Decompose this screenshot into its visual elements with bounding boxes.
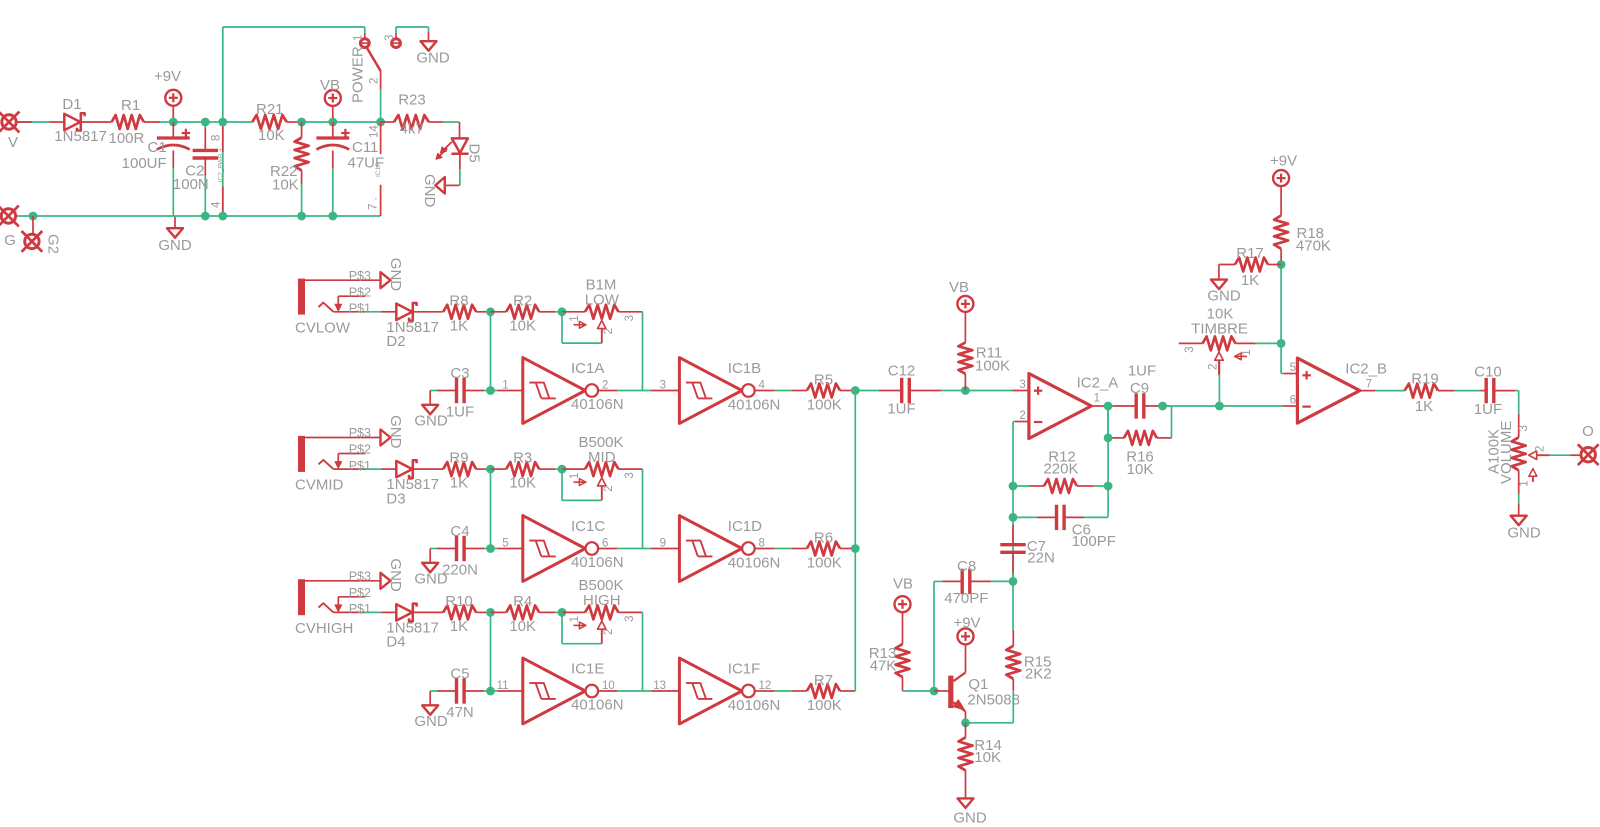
svg-text:3: 3: [1019, 379, 1025, 391]
svg-text:GND: GND: [414, 412, 448, 429]
svg-text:R23: R23: [398, 92, 426, 109]
svg-text:1: 1: [1094, 393, 1100, 405]
svg-text:IC1C: IC1C: [571, 518, 605, 535]
svg-text:10K: 10K: [974, 749, 1001, 766]
svg-text:100PF: 100PF: [1072, 533, 1116, 550]
svg-text:D5: D5: [466, 144, 483, 163]
node IC1 hidden power pins (14/7): [368, 122, 383, 216]
resistor R19 1K: [1405, 371, 1481, 415]
resistor R21 10K: [223, 101, 302, 144]
svg-text:11: 11: [497, 680, 509, 692]
ground GND below C5: [414, 691, 448, 730]
junction C11 bottom: [328, 212, 337, 221]
wire V to D1: [16, 121, 49, 123]
ground GND below VOLUME: [1507, 516, 1541, 542]
svg-text:C8: C8: [957, 558, 976, 575]
ground GND below D5: [421, 174, 445, 208]
svg-text:2: 2: [1535, 446, 1547, 452]
svg-text:R17: R17: [1236, 245, 1264, 262]
svg-text:GND: GND: [158, 237, 192, 254]
svg-text:R2: R2: [513, 292, 532, 309]
ground GND below C4: [414, 549, 448, 588]
ground GND at jack CVMID sleeve: [381, 415, 404, 449]
wire jack to D2: [365, 311, 381, 313]
svg-text:C9: C9: [1130, 380, 1149, 397]
svg-text:D3: D3: [386, 490, 405, 507]
schmitt inverter IC1A 40106N: [491, 358, 624, 424]
svg-text:1UF: 1UF: [887, 401, 915, 418]
svg-text:9: 9: [660, 538, 666, 550]
svg-text:C3: C3: [450, 365, 469, 382]
svg-text:C12: C12: [888, 363, 916, 380]
svg-text:P$3: P$3: [349, 569, 371, 583]
svg-text:C10: C10: [1474, 363, 1502, 380]
svg-text:8: 8: [211, 135, 223, 141]
svg-text:IC1P: IC1P: [375, 163, 382, 177]
wire main node to IC2_B pin6: [1163, 395, 1298, 407]
svg-text:IC1E: IC1E: [571, 661, 604, 678]
resistor R3 10K: [491, 450, 563, 492]
svg-text:1K: 1K: [450, 475, 468, 492]
svg-text:+9V: +9V: [154, 68, 181, 85]
svg-text:GND: GND: [387, 558, 404, 592]
resistor R7 100K: [755, 672, 855, 714]
wire R17/R18 node down: [1280, 265, 1282, 344]
svg-text:100K: 100K: [975, 358, 1010, 375]
junction C2 top: [201, 118, 210, 127]
svg-text:3: 3: [624, 615, 636, 621]
svg-text:1: 1: [502, 380, 508, 392]
svg-text:P$3: P$3: [349, 269, 371, 283]
svg-text:HIGH: HIGH: [583, 592, 621, 609]
svg-text:1UF: 1UF: [446, 404, 474, 421]
ground GND below C3: [414, 391, 448, 430]
junction R10/R4 node: [486, 608, 495, 617]
svg-text:40106N: 40106N: [728, 397, 781, 414]
svg-text:R7: R7: [814, 672, 833, 689]
svg-text:P$2: P$2: [349, 285, 371, 299]
svg-text:POWER: POWER: [350, 46, 367, 103]
wire node to IC2_B pin5: [1281, 343, 1297, 374]
ground GND below R14: [953, 798, 987, 826]
svg-text:P$2: P$2: [349, 443, 371, 457]
switch POWER pin 3 to GND: [384, 27, 429, 47]
svg-text:7 .: 7 .: [368, 197, 380, 210]
junction R8/R2 node: [486, 307, 495, 316]
capacitor C11 47UF: [316, 122, 384, 216]
svg-text:100K: 100K: [807, 554, 842, 571]
wire R13 to Q1 base: [903, 690, 935, 692]
svg-text:VOLUME: VOLUME: [1498, 421, 1515, 484]
wire R21 to VB node: [302, 121, 333, 123]
svg-text:10K: 10K: [509, 317, 536, 334]
svg-text:40106N: 40106N: [571, 396, 624, 413]
wire IC1C out to IC1D in: [598, 548, 651, 550]
capacitor C4 220N: [430, 523, 490, 579]
svg-text:P$1: P$1: [349, 302, 371, 316]
svg-text:10K: 10K: [258, 127, 285, 144]
svg-text:IC2_B: IC2_B: [1345, 361, 1387, 378]
svg-text:VB: VB: [949, 279, 969, 296]
svg-text:1N5817: 1N5817: [54, 128, 107, 145]
wire VOLUME to GND: [1518, 470, 1520, 515]
svg-text:P$1: P$1: [349, 602, 371, 616]
svg-text:3: 3: [660, 380, 666, 392]
schmitt inverter IC1E 40106N: [491, 658, 624, 724]
junction R16 left: [1104, 434, 1113, 443]
svg-text:1K: 1K: [450, 618, 468, 635]
svg-text:IC1B: IC1B: [728, 360, 761, 377]
resistor R10 1K: [443, 593, 490, 635]
junction POWER pin2 / R23 node: [376, 118, 385, 127]
pad O (output): [1578, 423, 1599, 465]
svg-text:2: 2: [603, 629, 615, 635]
wire IC2_A pin2: [1013, 410, 1029, 422]
svg-text:C11: C11: [352, 139, 378, 156]
svg-text:VB: VB: [320, 77, 340, 94]
schmitt inverter IC1F 40106N: [651, 658, 780, 724]
wire R23 to D5: [429, 122, 460, 138]
svg-text:10K: 10K: [509, 475, 536, 492]
svg-text:1: 1: [569, 473, 581, 479]
svg-text:10K: 10K: [272, 177, 299, 194]
svg-text:2: 2: [369, 78, 381, 84]
junction VB node: [328, 118, 337, 127]
junction C2 bottom: [201, 212, 210, 221]
junction IC2 power bottom: [218, 212, 227, 221]
svg-text:GND: GND: [414, 713, 448, 730]
svg-text:D1: D1: [62, 96, 81, 113]
junction TIMBRE pin1 / R17 node: [1277, 339, 1286, 348]
svg-text:Q1: Q1: [968, 676, 988, 693]
capacitor C7 22N: [1000, 525, 1055, 582]
svg-text:G2: G2: [45, 234, 62, 254]
resistor R17 1K: [1219, 245, 1281, 289]
resistor R23 4k7: [381, 92, 429, 138]
svg-text:2K2: 2K2: [1025, 666, 1052, 683]
resistor R14 10K: [959, 723, 1002, 799]
svg-text:1: 1: [1241, 349, 1253, 355]
junction R12 right: [1104, 482, 1113, 491]
ground GND at jack CVLOW sleeve: [381, 258, 404, 292]
svg-text:P$3: P$3: [349, 426, 371, 440]
junction R17/R18: [1277, 260, 1286, 269]
svg-text:1: 1: [353, 35, 365, 41]
resistor R12 220K: [1013, 448, 1108, 493]
wire node down to C4: [490, 469, 492, 548]
capacitor C8 470PF: [934, 558, 1013, 607]
svg-text:1: 1: [569, 315, 581, 321]
wire IC1E out to IC1F in: [598, 690, 651, 692]
junction TIMBRE wiper node: [1215, 402, 1224, 411]
junction R11 bottom: [961, 386, 970, 395]
potentiometer B1M LOW: [562, 277, 643, 344]
svg-text:P$1: P$1: [349, 459, 371, 473]
wire VB node to power pin 14: [333, 121, 381, 123]
svg-text:R9: R9: [449, 450, 468, 467]
diode D4 1N5817: [381, 604, 443, 651]
svg-text:1K: 1K: [1415, 398, 1433, 415]
svg-text:C4: C4: [450, 523, 469, 540]
potentiometer B500K HIGH: [562, 577, 643, 644]
svg-text:100K: 100K: [807, 396, 842, 413]
svg-text:220K: 220K: [1043, 460, 1078, 477]
svg-text:1K: 1K: [1241, 272, 1259, 289]
potentiometer TIMBRE 10K: [1179, 305, 1281, 374]
svg-text:GND: GND: [387, 415, 404, 449]
svg-text:LOW: LOW: [585, 292, 620, 309]
svg-text:14: 14: [369, 125, 381, 138]
schmitt inverter IC1C 40106N: [491, 516, 624, 582]
svg-text:47K: 47K: [870, 658, 897, 675]
svg-text:1: 1: [1519, 480, 1531, 486]
jack CVLOW: [295, 269, 380, 337]
diode D1 1N5817: [50, 96, 112, 145]
svg-text:R19: R19: [1411, 371, 1439, 388]
wire feedback vertical: [1107, 406, 1109, 517]
svg-text:GND: GND: [414, 570, 448, 587]
supply +9V above R18: [1270, 153, 1297, 187]
junction R22 top: [297, 118, 306, 127]
junction C3 / IC1A input: [486, 386, 495, 395]
junction R12 left: [1009, 482, 1018, 491]
resistor R2 10K: [491, 292, 563, 334]
potentiometer B500K MID: [562, 434, 643, 501]
pad G2 (ground input 2): [22, 231, 62, 254]
wire IC2_B output: [1360, 378, 1405, 390]
ground GND below R17: [1207, 280, 1241, 305]
svg-text:R5: R5: [814, 371, 833, 388]
svg-text:5: 5: [502, 538, 508, 550]
wire pot MID pin3 down: [642, 469, 644, 548]
svg-text:3: 3: [384, 35, 396, 41]
wire pot MID wiper loop: [562, 469, 602, 500]
junction +9V node at C1: [169, 118, 178, 127]
junction C4 / IC1C input: [486, 544, 495, 553]
capacitor C12 1UF: [855, 363, 965, 418]
resistor R18 470K: [1274, 186, 1331, 264]
supply VB above R13: [893, 576, 913, 613]
svg-text:. IC2_PWR +: . IC2_PWR +: [218, 148, 225, 186]
resistor R8 1K: [443, 292, 490, 334]
jack CVMID: [295, 426, 380, 494]
supply +9V (power rail): [154, 68, 181, 122]
resistor R11 100K: [958, 312, 1010, 391]
svg-text:3: 3: [624, 472, 636, 478]
svg-text:+9V: +9V: [1270, 153, 1297, 170]
svg-text:47N: 47N: [446, 704, 474, 721]
svg-text:470PF: 470PF: [944, 590, 988, 607]
svg-text:2: 2: [603, 485, 615, 491]
resistor R4 10K: [491, 593, 563, 635]
resistor R6 100K: [755, 529, 855, 571]
svg-text:40106N: 40106N: [728, 697, 781, 714]
junction pot LOW pin1 node: [558, 307, 567, 316]
wire node down to C5: [490, 612, 492, 691]
supply VB (bias rail): [320, 77, 341, 122]
svg-text:13: 13: [653, 680, 666, 692]
svg-text:1UF: 1UF: [1128, 363, 1156, 380]
wire C8 node down to R15: [1012, 581, 1014, 630]
capacitor C10 1UF: [1474, 363, 1515, 418]
wire node down to C3: [490, 312, 492, 391]
wire to IC2_A pin3: [965, 379, 1029, 391]
svg-text:TIMBRE: TIMBRE: [1191, 320, 1248, 337]
junction C6 left: [1009, 513, 1018, 522]
junction R22 bottom: [297, 212, 306, 221]
capacitor C2 100N: [173, 122, 218, 216]
resistor R9 1K: [443, 450, 490, 492]
svg-text:+9V: +9V: [953, 614, 980, 631]
svg-text:G: G: [4, 232, 16, 249]
svg-text:R21: R21: [256, 101, 284, 118]
svg-text:40106N: 40106N: [571, 697, 624, 714]
wire pot LOW wiper loop: [562, 312, 602, 343]
svg-text:100R: 100R: [109, 130, 145, 147]
wire pot HIGH wiper loop: [562, 612, 602, 643]
svg-text:GND: GND: [387, 258, 404, 292]
svg-text:470K: 470K: [1296, 237, 1331, 254]
svg-text:3: 3: [624, 315, 636, 321]
capacitor C9 1UF: [1108, 363, 1160, 419]
svg-text:R6: R6: [814, 529, 833, 546]
junction IC2_A output: [1104, 402, 1113, 411]
svg-text:D2: D2: [386, 333, 405, 350]
svg-text:3: 3: [1184, 346, 1196, 352]
junction Q1 base node: [930, 687, 939, 696]
svg-text:6: 6: [1290, 395, 1296, 407]
svg-text:R3: R3: [513, 450, 532, 467]
switch POWER lever and pin 2: [350, 46, 381, 122]
junction C9/R16 node: [1158, 402, 1167, 411]
svg-text:R1: R1: [121, 97, 140, 114]
svg-text:V: V: [8, 134, 18, 151]
svg-text:2N5088: 2N5088: [967, 692, 1020, 709]
ground GND at POWER pin 3: [416, 41, 450, 66]
svg-text:1UF: 1UF: [1474, 401, 1502, 418]
svg-text:40106N: 40106N: [571, 554, 624, 571]
svg-text:D4: D4: [386, 634, 405, 651]
node IC2 hidden power pins (8/4): [211, 27, 225, 216]
svg-text:22N: 22N: [1027, 550, 1055, 567]
resistor R16 10K: [1108, 406, 1171, 478]
svg-text:P$2: P$2: [349, 586, 371, 600]
wire C10 to VOLUME: [1515, 391, 1519, 438]
svg-text:7: 7: [1366, 378, 1372, 390]
supply +9V above Q1: [953, 614, 980, 644]
svg-text:MID: MID: [588, 449, 616, 466]
svg-text:C1: C1: [148, 139, 167, 156]
junction R9/R3 node: [486, 465, 495, 474]
svg-text:GND: GND: [1207, 288, 1241, 305]
svg-text:4: 4: [211, 201, 223, 208]
svg-text:R10: R10: [445, 593, 473, 610]
wire IC2_A output: [1091, 393, 1107, 407]
op-amp IC2_A: [1029, 374, 1118, 439]
resistor R13 47K: [869, 612, 910, 691]
svg-text:IC1A: IC1A: [571, 360, 604, 377]
svg-text:100K: 100K: [807, 697, 842, 714]
junction C7/C8 node: [1009, 577, 1018, 586]
resistor R5 100K: [755, 371, 855, 413]
capacitor C5 47N: [430, 665, 490, 721]
svg-text:3: 3: [1518, 425, 1530, 431]
resistor R22 10K: [270, 122, 309, 216]
schmitt inverter IC1D 40106N: [651, 516, 780, 582]
wire IC2_A inverting net down: [1012, 422, 1014, 582]
pad G (ground input): [0, 206, 19, 249]
wire R15 to emitter node: [966, 691, 1014, 723]
capacitor C3 1UF: [430, 365, 490, 421]
capacitor C6 100PF: [1013, 505, 1116, 550]
svg-text:IC1F: IC1F: [728, 661, 761, 678]
wire VOLUME wiper to O: [1550, 454, 1581, 456]
junction pot MID pin1 node: [558, 465, 567, 474]
svg-text:1K: 1K: [450, 317, 468, 334]
op-amp IC2_B: [1297, 358, 1387, 423]
wire C8 left down to base: [933, 581, 935, 691]
junction G pad: [29, 212, 38, 234]
svg-text:IC2_A: IC2_A: [1077, 375, 1119, 392]
junction bus R5: [851, 386, 860, 395]
svg-text:100N: 100N: [173, 176, 209, 193]
resistor R15 2K2: [1006, 630, 1051, 691]
wire ground bus bottom: [16, 215, 380, 217]
svg-text:IC1D: IC1D: [728, 518, 762, 535]
svg-text:GND: GND: [1507, 525, 1541, 542]
svg-text:R4: R4: [513, 593, 532, 610]
svg-text:2: 2: [1019, 410, 1025, 422]
junction C5 / IC1E input: [486, 687, 495, 696]
svg-text:10K: 10K: [1127, 461, 1154, 478]
jack CVHIGH: [295, 569, 380, 637]
wire summing bus: [854, 391, 856, 692]
wire D5 to GND: [446, 154, 460, 186]
resistor R1 100R: [109, 97, 161, 147]
svg-text:4k7: 4k7: [400, 121, 424, 138]
diode D2 1N5817: [381, 303, 443, 350]
wire pot LOW pin3 down: [642, 312, 644, 391]
svg-text:1: 1: [569, 616, 581, 622]
svg-text:VB: VB: [893, 576, 913, 593]
svg-text:40106N: 40106N: [728, 555, 781, 572]
svg-text:R8: R8: [449, 292, 468, 309]
wire IC1A out to IC1B in: [598, 390, 651, 392]
capacitor C1 100UF: [122, 122, 190, 216]
ground GND at jack CVHIGH sleeve: [381, 558, 404, 592]
wire +9V node to C2 and IC2 power: [173, 121, 223, 123]
svg-text:CVHIGH: CVHIGH: [295, 620, 353, 637]
svg-text:GND: GND: [421, 174, 438, 208]
potentiometer VOLUME A100K: [1486, 421, 1550, 487]
svg-text:CVLOW: CVLOW: [295, 319, 351, 336]
junction IC2 power top: [218, 118, 227, 127]
wire TIMBRE wiper down: [1218, 361, 1220, 407]
junction pot HIGH pin1 node: [558, 608, 567, 617]
svg-text:C5: C5: [450, 665, 469, 682]
wire jack to D4: [365, 611, 381, 613]
LED D5: [436, 138, 483, 162]
wire jack to D3: [365, 468, 381, 470]
diode D3 1N5817: [381, 460, 443, 507]
pad V (supply input): [0, 112, 19, 151]
svg-text:2: 2: [603, 328, 615, 334]
svg-text:GND: GND: [416, 50, 450, 67]
supply VB above R11: [949, 279, 973, 312]
junction Q1 emitter node: [961, 718, 970, 727]
svg-text:O: O: [1582, 423, 1594, 440]
svg-text:2: 2: [1208, 364, 1220, 370]
